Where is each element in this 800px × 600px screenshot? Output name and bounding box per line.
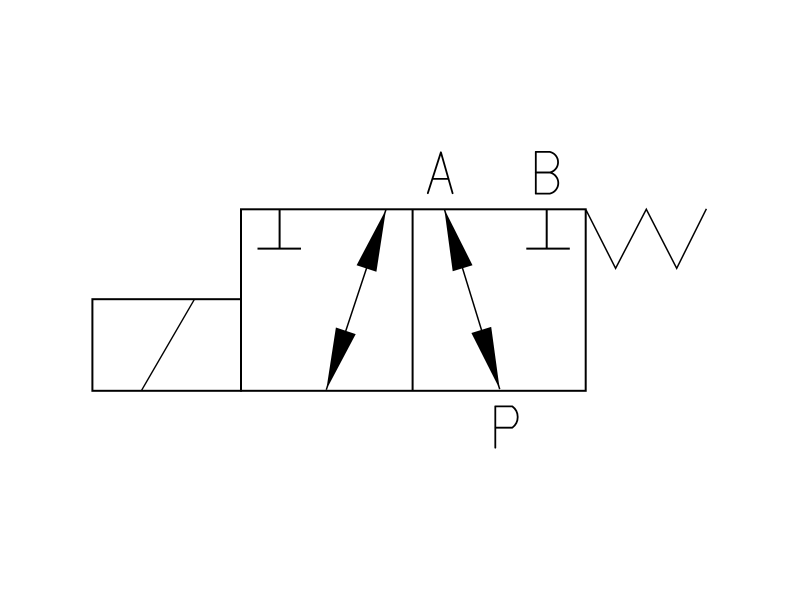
blocked port symbol (right position, T mark under B) bbox=[526, 209, 570, 248]
port label P bbox=[495, 406, 517, 447]
blocked port symbol (left position, T mark) bbox=[258, 209, 302, 248]
position divider line bbox=[412, 209, 414, 390]
valve body envelope (two positions) bbox=[241, 209, 586, 390]
flow path arrow (right position, A to P, double-headed) bbox=[444, 209, 499, 389]
port label A bbox=[428, 152, 453, 193]
flow path arrow (left position, double-headed) bbox=[326, 210, 386, 390]
solenoid actuator Y1 (diagonal stroke) bbox=[141, 299, 194, 391]
port label B bbox=[536, 152, 558, 194]
solenoid actuator Y1 (box) bbox=[92, 299, 241, 391]
return spring (zigzag) bbox=[586, 209, 707, 268]
